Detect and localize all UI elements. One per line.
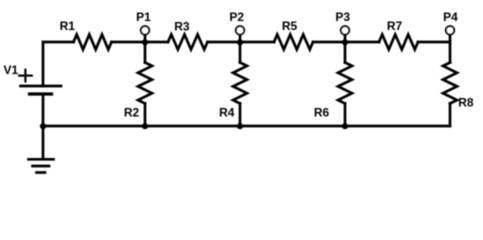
svg-text:P2: P2 — [229, 10, 244, 24]
svg-text:P1: P1 — [136, 10, 151, 24]
svg-text:P4: P4 — [443, 10, 458, 24]
svg-text:R5: R5 — [282, 19, 298, 33]
svg-text:R3: R3 — [174, 20, 190, 34]
svg-text:R1: R1 — [60, 19, 76, 33]
svg-text:R4: R4 — [219, 106, 235, 120]
svg-text:R8: R8 — [458, 96, 474, 110]
svg-text:R7: R7 — [387, 19, 403, 33]
svg-text:V1: V1 — [4, 63, 19, 77]
svg-text:R2: R2 — [124, 106, 140, 120]
svg-text:P3: P3 — [335, 10, 350, 24]
svg-text:R6: R6 — [314, 106, 330, 120]
